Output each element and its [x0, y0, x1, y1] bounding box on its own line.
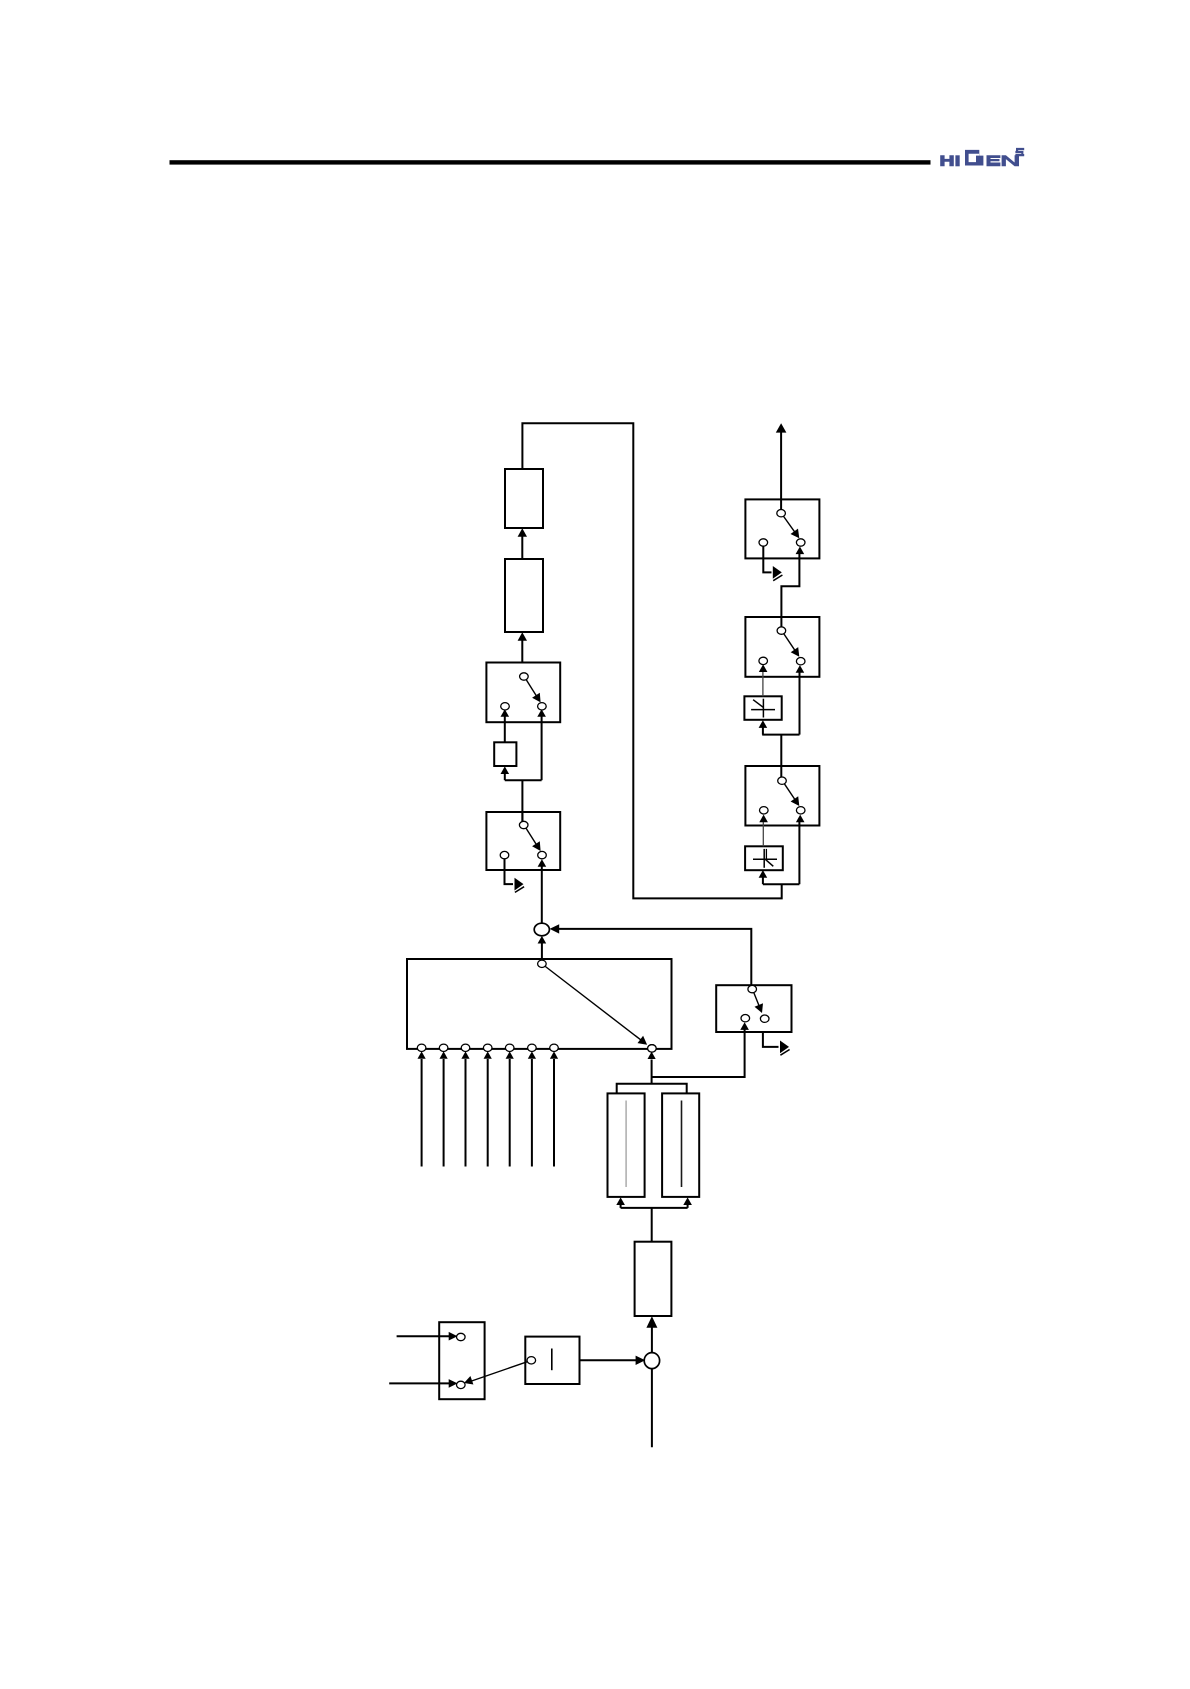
- wire bracket stem to B6: [651, 1208, 653, 1242]
- wire SW3 output with arrow: [763, 1032, 790, 1055]
- selector input 1 wire and terminal: [417, 1044, 426, 1166]
- switch SW3 frame: [716, 985, 791, 1032]
- header rule: [170, 160, 931, 164]
- wire jog SW6 common to SW5 right input with arrow: [781, 547, 804, 628]
- logo letter H: [940, 155, 954, 166]
- logo superscript s: [1015, 148, 1024, 156]
- parameter block P1: [608, 1093, 645, 1197]
- block G1 (gain): [494, 742, 516, 766]
- block B7 inner mark and terminal: [527, 1349, 552, 1371]
- HIGEN logo: [940, 148, 1024, 166]
- selector SEL wiper diagonal with arrow and terminals: [538, 960, 657, 1052]
- wire B2 output to B1 with arrow: [518, 528, 527, 559]
- switch SW2 contacts with common stub: [500, 812, 546, 859]
- wire limiter L1 to SW6 left input with arrow: [759, 664, 768, 696]
- wire input A to SW4 top with arrow: [397, 1332, 458, 1341]
- block B1 (position command filter): [505, 469, 543, 528]
- wire arrow into L1 bottom: [759, 720, 768, 734]
- wire bracket over parameter blocks P1 P2: [617, 1084, 687, 1094]
- wire SW2 monitor output with arrow: [505, 858, 525, 892]
- wire SEL output to sum S1 bottom with arrow: [538, 936, 547, 960]
- switch SW4 contacts: [457, 1333, 466, 1388]
- logo letter G: [965, 150, 983, 166]
- block SEL (speed command selector): [407, 959, 672, 1049]
- selector input 6 wire and terminal: [528, 1044, 537, 1166]
- wire G1 output to SW1 left input with arrow: [501, 709, 510, 742]
- logo letter I: [955, 155, 959, 166]
- parameter block P1 inner mark: [625, 1101, 627, 1188]
- switch SW7 frame: [745, 766, 819, 826]
- wire to SW7 common: [780, 735, 782, 777]
- block B2 (electronic gear): [505, 559, 543, 632]
- selector input 3 wire and terminal: [461, 1044, 470, 1166]
- wire junction to SW3 left input with arrow: [652, 1022, 749, 1077]
- wire to SW6 right input with arrow: [796, 665, 805, 735]
- wire to SW2 common: [521, 780, 523, 821]
- wire junction below SW1: [505, 779, 542, 781]
- limiter L1 icon: [751, 699, 775, 718]
- switch SW1 contacts: [501, 673, 547, 710]
- parameter block P2: [662, 1093, 699, 1197]
- switch SW6 frame: [745, 617, 819, 677]
- limiter block L1: [744, 696, 781, 720]
- wire to SW7 right input with arrow: [796, 815, 805, 885]
- wire sum S1 to SW2 right input with arrow: [538, 859, 547, 923]
- switch SW7 contacts: [760, 777, 806, 814]
- block B6 (speed scaling): [635, 1242, 672, 1316]
- switch SW4 frame (input select): [439, 1322, 484, 1399]
- limiter block L2: [745, 846, 783, 870]
- switch SW5 contacts: [759, 510, 805, 547]
- wire junction below L1: [762, 734, 799, 736]
- logo letter E: [987, 155, 1001, 166]
- switch SW6 contacts: [759, 627, 805, 665]
- summing junction S2: [644, 1353, 659, 1369]
- wire to SW1 right input with arrow: [537, 709, 546, 780]
- wire feedback loop from B1 top to torque-limit branch: [522, 423, 781, 898]
- wire SW5 left monitor output with arrow: [763, 546, 782, 581]
- switch SW1 frame (command select): [486, 663, 560, 723]
- logo letter N: [1002, 155, 1019, 166]
- selector input 7 wire and terminal: [550, 1044, 559, 1166]
- limiter L2 icon: [753, 849, 777, 868]
- wire arrow into L2 bottom: [759, 870, 768, 884]
- wire stub SW5 common to frame top: [780, 499, 782, 509]
- wire sum S2 to B6 bottom with arrow: [646, 1316, 657, 1353]
- selector input 4 wire and terminal: [483, 1044, 492, 1166]
- selector input 2 wire and terminal: [439, 1044, 448, 1166]
- wire input B to SW4 bottom with arrow: [389, 1379, 457, 1388]
- summing junction S1: [534, 923, 549, 936]
- wire speed input into sum S2 bottom: [651, 1369, 653, 1447]
- switch SW3 contacts: [741, 985, 769, 1022]
- parameter block P2 inner mark: [681, 1101, 683, 1188]
- wire final speed command output arrow: [776, 423, 787, 499]
- selector input 5 wire and terminal: [505, 1044, 514, 1166]
- block B7 (analog input): [525, 1337, 579, 1384]
- wire diagonal B7 terminal to SW4 lower contact with arrow: [464, 1362, 527, 1385]
- wire arrow into G1 bottom: [501, 766, 510, 780]
- wire junction below L2: [763, 883, 800, 885]
- wire B7 output into sum S2 with arrow: [580, 1356, 646, 1365]
- wire speed reference from SW3 common into sum S1 with arrow: [550, 924, 752, 985]
- selector input 8 terminal with arrow and stem: [648, 1045, 657, 1084]
- wire bracket under parameter blocks with arrows into P1 P2: [616, 1197, 692, 1208]
- wire SW1 common to B2 with arrow: [518, 632, 527, 662]
- switch SW2 frame: [486, 812, 560, 870]
- switch SW5 frame (output select): [745, 499, 819, 558]
- wire limiter L2 to SW7 left input with arrow: [759, 815, 768, 847]
